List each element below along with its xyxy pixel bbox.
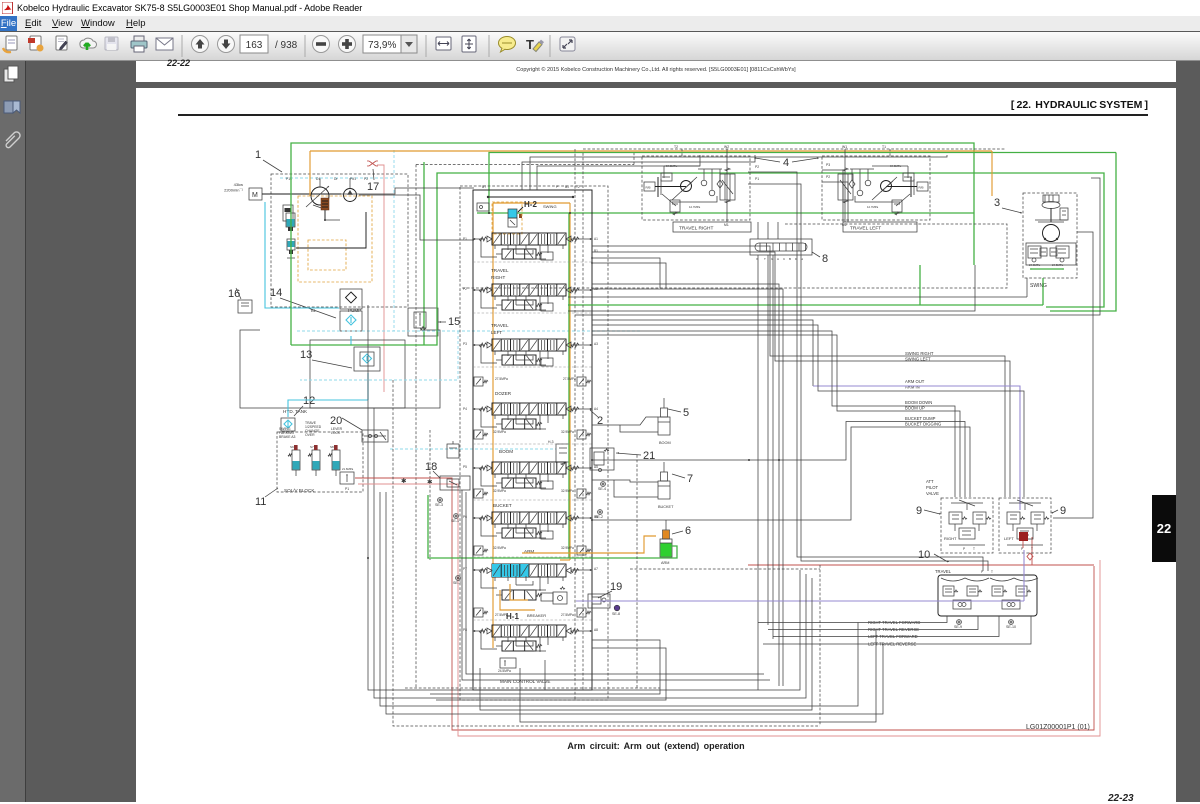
travel left label box xyxy=(843,222,917,232)
main pump P1 xyxy=(311,187,329,205)
swing parking brake solenoid xyxy=(292,450,300,470)
svg-text:BUCKET DUMP: BUCKET DUMP xyxy=(905,416,936,421)
adobe reader app icon xyxy=(2,2,14,14)
svg-text:P: P xyxy=(963,547,965,551)
menu bar xyxy=(0,16,1200,32)
svg-text:SE-3: SE-3 xyxy=(435,503,443,507)
pump cyan pilot dashes xyxy=(280,177,394,179)
wire column right port xyxy=(571,344,592,346)
wire section plumbing xyxy=(507,351,509,356)
arm check valve xyxy=(553,592,567,604)
wire pump suction cyan xyxy=(265,202,339,308)
svg-text:W1: W1 xyxy=(842,145,847,149)
wire column left port xyxy=(473,517,485,519)
svg-text:32.9MPa: 32.9MPa xyxy=(561,546,574,550)
svg-text:S8: S8 xyxy=(330,445,334,449)
svg-text:T2: T2 xyxy=(576,185,580,189)
relief valves breaker xyxy=(474,608,483,617)
wire green pump top loop xyxy=(291,143,974,345)
wire swing to att pilot xyxy=(1053,232,1093,518)
sidebar icon: bookmarks xyxy=(4,101,20,113)
wire column left port xyxy=(473,408,485,410)
svg-text:T: T xyxy=(973,547,975,551)
svg-text:SE-8: SE-8 xyxy=(612,612,620,616)
wire column right port xyxy=(571,467,592,469)
section divider lines xyxy=(473,261,592,263)
svg-text:27.5MPa: 27.5MPa xyxy=(495,377,508,381)
svg-text:M: M xyxy=(252,192,258,199)
travel motor right assembly xyxy=(642,156,750,220)
breather 16 xyxy=(238,300,252,313)
return filter 13 xyxy=(354,347,380,371)
plug X mark 17 xyxy=(369,161,376,166)
toolbar icon: fit width xyxy=(436,37,451,50)
svg-text:A5: A5 xyxy=(594,465,598,469)
wire boom down pilot xyxy=(592,331,955,497)
wire cyan dashed pilot xyxy=(390,448,556,450)
wire column aux ports xyxy=(592,258,660,288)
oil cooler bypass check 14 xyxy=(340,289,362,309)
wire section plumbing xyxy=(507,637,509,642)
valve spool arm highlighted xyxy=(492,564,566,577)
svg-text:SE-10: SE-10 xyxy=(1006,625,1016,629)
svg-text:H-1: H-1 xyxy=(506,612,519,621)
sensor SE-7 xyxy=(456,576,461,581)
svg-text:9: 9 xyxy=(1060,505,1066,517)
valve sub-spool travel left xyxy=(502,355,536,365)
wire section feed xyxy=(481,570,497,588)
svg-text:LEFT: LEFT xyxy=(1004,536,1014,541)
wire column to travel top xyxy=(522,155,755,190)
zoom value box xyxy=(363,35,401,53)
wire column travel feeds xyxy=(592,284,779,686)
next page number xyxy=(1108,793,1134,804)
svg-text:H-2: H-2 xyxy=(524,200,537,209)
toolbar icon: fullscreen xyxy=(560,37,575,51)
separator xyxy=(549,35,551,57)
toolbar icon: email xyxy=(156,38,173,50)
suction strainer 12 xyxy=(281,418,295,431)
sensor SE-4 xyxy=(601,482,606,487)
valve spool dozer xyxy=(492,403,566,415)
svg-text:D1: D1 xyxy=(316,177,320,181)
wire section feed xyxy=(481,290,497,308)
wire cooler to filter cyan xyxy=(350,336,352,345)
svg-text:32.9MPa: 32.9MPa xyxy=(493,430,506,434)
toolbar icon: sign/pencil xyxy=(56,36,68,50)
wire section feed xyxy=(481,468,497,486)
dashed mid boundary xyxy=(636,455,638,690)
wire section feed xyxy=(481,345,497,363)
wire column left port xyxy=(473,569,485,571)
pump drive shaft xyxy=(262,193,341,195)
svg-text:OVER: OVER xyxy=(305,433,315,437)
pump assembly box xyxy=(271,174,408,307)
toolbar icon: open xyxy=(3,36,17,52)
valve sub-spool dozer xyxy=(502,419,536,429)
svg-text:32.9MPa: 32.9MPa xyxy=(493,546,506,550)
wire tank lines down xyxy=(367,305,369,558)
valve spool bucket xyxy=(492,512,566,524)
travel motor left assembly xyxy=(822,156,930,220)
window title bar xyxy=(0,0,1200,16)
pump bold piping xyxy=(290,227,292,237)
valve sub-spool swing xyxy=(502,249,536,259)
toolbar xyxy=(0,32,1200,61)
svg-text:LEVER: LEVER xyxy=(331,427,343,431)
pump regulator inner box xyxy=(308,240,346,270)
wire bucket digging pilot xyxy=(592,427,970,520)
svg-text:P7: P7 xyxy=(463,567,467,571)
sensor SE-9 xyxy=(957,620,962,625)
wire bottom loop 4 xyxy=(386,564,883,714)
svg-text:S9: S9 xyxy=(290,445,294,449)
svg-text:M1: M1 xyxy=(724,223,729,227)
svg-text:T1: T1 xyxy=(882,145,886,149)
svg-text:14: 14 xyxy=(270,287,282,299)
svg-text:32.9MPa: 32.9MPa xyxy=(561,430,574,434)
sensor SE-2 xyxy=(598,510,603,515)
swing brake block xyxy=(1026,243,1076,265)
svg-text:21.6MPa: 21.6MPa xyxy=(342,467,354,471)
svg-text:P1: P1 xyxy=(463,237,467,241)
relief valves arm xyxy=(474,546,483,555)
boom cylinder 5 xyxy=(663,398,665,408)
swing shaft xyxy=(1050,208,1052,222)
valve sub-spool bucket xyxy=(502,528,536,538)
lever lock solenoid xyxy=(332,450,340,470)
svg-text:PARKING: PARKING xyxy=(279,431,294,435)
svg-text:P2: P2 xyxy=(463,287,467,291)
pilot check upper xyxy=(447,444,459,458)
wire right travel reverse xyxy=(768,616,978,630)
svg-text:A7: A7 xyxy=(594,567,598,571)
wire left sol leads xyxy=(462,490,770,680)
swing motor xyxy=(1043,225,1060,242)
svg-text:TRAVEL: TRAVEL xyxy=(491,323,509,328)
wire red from plug 17 xyxy=(377,165,384,392)
svg-text:SE-7: SE-7 xyxy=(453,581,461,585)
pump regulator spring coil xyxy=(321,198,329,210)
svg-text:LEFT: LEFT xyxy=(491,330,502,335)
svg-text:S7: S7 xyxy=(310,445,314,449)
wire column right port xyxy=(571,517,592,519)
wire bucket dump pilot xyxy=(592,422,965,498)
svg-text:BOOM: BOOM xyxy=(659,441,671,445)
svg-text:P1: P1 xyxy=(755,177,759,181)
svg-text:SE-9: SE-9 xyxy=(954,625,962,629)
wire green H-2 feed xyxy=(489,153,1116,214)
pump pilot solenoid B xyxy=(287,239,295,250)
att pilot valve right xyxy=(941,498,993,553)
svg-text:P2: P2 xyxy=(755,165,759,169)
wire bottom short A xyxy=(480,578,812,710)
svg-text:20: 20 xyxy=(330,415,342,427)
sidebar icon: attachments xyxy=(6,132,20,148)
svg-text:24.5MPa: 24.5MPa xyxy=(498,669,511,673)
travel pilot valve box xyxy=(938,575,1037,616)
swing gearbox xyxy=(1043,195,1059,202)
svg-text:T: T xyxy=(764,257,766,261)
wire swing dash boundary xyxy=(462,224,1007,288)
sensor SE-8 purple xyxy=(614,605,620,611)
svg-text:P1: P1 xyxy=(345,487,349,491)
wire section plumbing xyxy=(507,245,509,250)
svg-text:T: T xyxy=(1031,547,1033,551)
svg-text:P: P xyxy=(981,570,983,574)
travel pilot left half xyxy=(990,578,1038,581)
sensor SE-3 xyxy=(438,498,443,503)
figure caption xyxy=(136,741,1176,751)
wire section plumbing xyxy=(507,474,509,479)
H-2 pilot dashed box xyxy=(492,202,522,234)
svg-text:R/B: R/B xyxy=(919,186,924,190)
svg-text:12: 12 xyxy=(303,395,315,407)
relief valves dozer xyxy=(474,377,483,386)
svg-text:BT: BT xyxy=(482,185,486,189)
svg-text:T2: T2 xyxy=(674,145,678,149)
wire left travel forward xyxy=(773,616,999,637)
svg-text:27.5MPa: 27.5MPa xyxy=(561,613,574,617)
toolbar icon: zoom in xyxy=(339,36,356,53)
svg-text:2200min¯¹: 2200min¯¹ xyxy=(224,188,244,193)
svg-text:ARM OUT: ARM OUT xyxy=(905,379,925,384)
wire section plumbing xyxy=(507,296,509,301)
svg-text:P3: P3 xyxy=(463,342,467,346)
swing pilot valve xyxy=(1060,208,1068,220)
wire orange top xyxy=(310,150,992,152)
wire column right port xyxy=(571,238,592,240)
svg-text:10: 10 xyxy=(918,549,930,561)
lever lock valve 20 xyxy=(362,430,388,442)
wire swing green return xyxy=(568,304,1043,306)
svg-text:9: 9 xyxy=(916,505,922,517)
wire column left port xyxy=(473,238,485,240)
svg-text:7: 7 xyxy=(687,473,693,485)
solenoid block outline xyxy=(277,432,363,492)
pump pilot solenoid A xyxy=(286,213,295,227)
svg-text:24.3MPa: 24.3MPa xyxy=(1029,263,1041,267)
svg-text:BREAKER: BREAKER xyxy=(527,613,546,618)
hydraulic tank outline xyxy=(240,330,440,408)
svg-text:HYD. TANK: HYD. TANK xyxy=(283,409,308,414)
main control valve outer dashed box xyxy=(460,186,608,700)
toolbar icon: cloud upload xyxy=(80,38,97,50)
svg-text:P4: P4 xyxy=(463,407,467,411)
svg-text:H-3: H-3 xyxy=(548,440,554,444)
wire bottom loop 1 xyxy=(368,558,800,690)
page 163 xyxy=(136,88,1176,802)
H-2 small check xyxy=(477,203,489,211)
wire bottom loop 6 xyxy=(436,648,666,700)
svg-text:15: 15 xyxy=(448,316,460,328)
swing crossover reliefs xyxy=(1040,248,1047,256)
svg-text:BUCKET: BUCKET xyxy=(493,503,512,508)
page header xyxy=(136,99,1148,111)
svg-text:A: A xyxy=(777,257,779,261)
swing green arrows xyxy=(1030,268,1040,270)
wire travel down right xyxy=(748,172,983,571)
toolbar icon: comment bubble xyxy=(499,37,516,53)
svg-text:SOL/V BLOCK: SOL/V BLOCK xyxy=(284,488,315,493)
valve spool travel right xyxy=(492,284,566,296)
oil cooler 14 xyxy=(340,311,362,331)
svg-text:VALVE: VALVE xyxy=(926,491,939,496)
wire swing gray return xyxy=(568,296,1027,298)
svg-text:A8: A8 xyxy=(594,628,598,632)
wire right travel forward xyxy=(758,616,947,623)
relief valves bucket xyxy=(474,489,483,498)
svg-text:A4: A4 xyxy=(594,407,598,411)
wire right long xyxy=(575,178,1100,315)
svg-text:1: 1 xyxy=(255,149,261,161)
wire section plumbing xyxy=(507,524,509,529)
svg-text:27.5MPa: 27.5MPa xyxy=(495,613,508,617)
wire section feed xyxy=(481,409,497,427)
toolbar icon: zoom out xyxy=(313,36,330,53)
wire bottom dashed xyxy=(405,687,660,689)
wire swivel verticals xyxy=(757,222,759,239)
wire green left loop xyxy=(291,173,1104,345)
sensor SE-10 xyxy=(1009,620,1014,625)
svg-text:SE-1: SE-1 xyxy=(451,519,459,523)
valve spool travel left xyxy=(492,339,566,351)
svg-text:8: 8 xyxy=(822,253,828,265)
wire cyan dashed loop xyxy=(297,330,640,332)
swing motor assembly box xyxy=(1023,193,1077,278)
wire salmon loop xyxy=(358,484,1100,736)
bottom relief valve xyxy=(500,658,516,668)
wire arm out pilot gray lead xyxy=(592,320,813,386)
svg-text:G: G xyxy=(771,257,774,261)
svg-text:A3: A3 xyxy=(594,342,598,346)
column top port rail xyxy=(488,196,573,198)
wire green column right xyxy=(568,213,570,558)
wire bottom loop 2 xyxy=(374,560,806,698)
svg-text:P2: P2 xyxy=(826,175,830,179)
solenoid valve H-2 xyxy=(508,209,517,218)
svg-text:6: 6 xyxy=(685,525,691,537)
svg-text:P3: P3 xyxy=(826,163,830,167)
svg-text:32.9MPa: 32.9MPa xyxy=(561,489,574,493)
svg-text:RIGHT: RIGHT xyxy=(944,536,957,541)
svg-text:P5: P5 xyxy=(463,465,467,469)
toolbar icon: fit page xyxy=(462,36,476,52)
svg-text:C: C xyxy=(783,257,786,261)
swing brake valve left xyxy=(1028,246,1041,258)
pilot valve 18 xyxy=(440,476,470,490)
boom lock valve 21 xyxy=(590,448,614,470)
valve sub-spool arm xyxy=(502,590,536,600)
svg-text:P8: P8 xyxy=(463,628,467,632)
arm cylinder 6 xyxy=(665,520,667,530)
svg-text:TRAVEL LEFT: TRAVEL LEFT xyxy=(850,226,881,232)
dashed vertical mid xyxy=(429,430,431,560)
svg-text:B1: B1 xyxy=(565,185,569,189)
valve sub-spool breaker xyxy=(502,641,536,651)
sensor SE-1 xyxy=(454,514,459,519)
svg-text:SWING: SWING xyxy=(279,427,291,431)
svg-text:4: 4 xyxy=(783,157,789,169)
wire column right port xyxy=(571,569,592,571)
svg-text:BRAKE A3: BRAKE A3 xyxy=(279,435,296,439)
bucket cylinder 7 xyxy=(663,462,665,472)
previous page bottom strip xyxy=(136,61,1176,82)
junction dots xyxy=(367,557,369,559)
svg-text:BOOM: BOOM xyxy=(499,449,513,454)
wire arm in pilot xyxy=(592,325,1024,497)
wire bottom short B xyxy=(520,630,876,722)
wire section plumbing xyxy=(507,576,509,581)
svg-text:D: D xyxy=(795,257,798,261)
wire section feed xyxy=(481,631,497,649)
wire left travel reverse xyxy=(763,616,1031,644)
page number box xyxy=(240,35,268,53)
att pilot solenoid mark xyxy=(1019,532,1028,541)
svg-text:11: 11 xyxy=(255,496,266,508)
wire column right port xyxy=(571,630,592,632)
svg-text:TRAVEL RIGHT: TRAVEL RIGHT xyxy=(679,226,713,232)
separator xyxy=(488,35,490,57)
svg-text:12.7MPa: 12.7MPa xyxy=(689,205,701,209)
svg-text:W2: W2 xyxy=(724,145,729,149)
wire column left port xyxy=(473,630,485,632)
svg-text:SE-4: SE-4 xyxy=(598,487,606,491)
travel speed solenoid xyxy=(312,450,320,470)
wire orange column right xyxy=(569,203,571,560)
svg-text:27.5MPa: 27.5MPa xyxy=(563,377,576,381)
pump regulator dashed box xyxy=(298,196,372,282)
valve sub-spool travel right xyxy=(502,300,536,310)
sidebar icon: page thumbnails xyxy=(4,66,18,82)
gear pump P2 xyxy=(344,189,357,202)
wire column right port xyxy=(571,408,592,410)
toolbar icon: save (disabled) xyxy=(105,37,118,50)
svg-text:CHANGE: CHANGE xyxy=(305,429,320,433)
svg-text:13: 13 xyxy=(300,349,312,361)
dashed boundary left xyxy=(393,380,820,726)
svg-text:RIGHT: RIGHT xyxy=(491,275,505,280)
valve spool breaker xyxy=(492,625,566,637)
wire column right port xyxy=(571,289,592,291)
wire arm out pilot purple xyxy=(813,386,1020,510)
wire column left port xyxy=(473,289,485,291)
svg-text:24.5MPa: 24.5MPa xyxy=(1052,263,1064,267)
svg-text:32.9MPa: 32.9MPa xyxy=(493,489,506,493)
wire purple se8 xyxy=(576,600,1024,602)
wire bottom loop 3 xyxy=(380,562,858,706)
svg-text:BUCKET: BUCKET xyxy=(658,505,674,509)
toolbar icon: print xyxy=(131,36,147,52)
valve spool swing xyxy=(492,233,566,245)
wire sol block red xyxy=(355,478,1094,730)
svg-text:LG01Z00001P1 (01): LG01Z00001P1 (01) xyxy=(1026,724,1090,731)
svg-text:TRAVEL: TRAVEL xyxy=(935,569,952,574)
svg-text:ARM: ARM xyxy=(661,561,669,565)
svg-text:ARM IN: ARM IN xyxy=(905,385,920,390)
wire red pilot line xyxy=(748,564,1094,566)
svg-text:PILOT: PILOT xyxy=(926,485,939,490)
svg-text:A1: A1 xyxy=(594,237,598,241)
swing brake valve right xyxy=(1056,246,1069,258)
svg-text:SWING: SWING xyxy=(543,204,557,209)
separator xyxy=(181,35,183,57)
svg-text:BOOM DOWN: BOOM DOWN xyxy=(905,400,932,405)
svg-text:1/2SPEED: 1/2SPEED xyxy=(305,425,322,429)
svg-text:TRAVEL: TRAVEL xyxy=(491,268,509,273)
navigation sidebar xyxy=(0,61,26,802)
pump servo piston xyxy=(283,205,293,221)
